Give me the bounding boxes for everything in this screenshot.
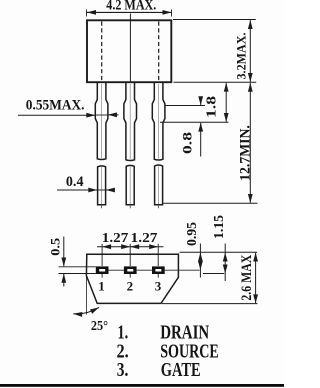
dim line 12.7 <box>249 83 251 203</box>
25 deg arc <box>73 307 99 314</box>
dim 0.8 upper tail <box>200 98 202 105</box>
ext lead end <box>164 202 258 204</box>
ext shoulder bottom <box>160 121 229 123</box>
svg-text:12.7MIN.: 12.7MIN. <box>238 125 254 181</box>
ext bottom line <box>162 303 258 305</box>
svg-text:3.2MAX.: 3.2MAX. <box>233 33 248 80</box>
dim 0.8 lower tail <box>200 123 202 157</box>
right side bottom view dims <box>162 244 258 304</box>
svg-text:0.8: 0.8 <box>180 131 195 154</box>
ext shoulder top <box>166 105 206 107</box>
lead 1 pad <box>96 266 109 274</box>
dim line 3.2 <box>249 20 251 82</box>
svg-text:25°: 25° <box>91 319 108 334</box>
arrows 1.8 <box>224 83 229 92</box>
svg-text:0.4: 0.4 <box>66 174 84 190</box>
lead 3 lower segment <box>155 165 163 205</box>
lead 1 upper segment <box>95 83 165 205</box>
center line lead 2 <box>129 14 131 82</box>
package body (front view) <box>87 20 171 82</box>
svg-text:1.8: 1.8 <box>205 96 220 118</box>
lead 3 upper segment <box>152 83 165 160</box>
dim 2.6 line <box>255 253 257 303</box>
lead 1 lower segment <box>98 166 106 205</box>
ext lead bottom (for 1.15) <box>203 273 224 275</box>
svg-text:0.95: 0.95 <box>184 222 199 246</box>
svg-text:4.2 MAX.: 4.2 MAX. <box>106 0 156 13</box>
svg-text:0.5: 0.5 <box>47 237 62 256</box>
lead row center line <box>109 269 200 271</box>
svg-text:2: 2 <box>127 278 134 293</box>
svg-text:3: 3 <box>155 278 162 293</box>
svg-text:1: 1 <box>98 278 105 293</box>
svg-text:GATE: GATE <box>161 359 201 381</box>
dimension 4.2 MAX line <box>87 11 171 13</box>
lead 2 lower segment <box>126 165 134 204</box>
lead 2 pad <box>124 266 137 274</box>
ext body bottom <box>174 81 257 83</box>
faint lead centerlines <box>101 84 103 158</box>
right side extension lines <box>160 20 258 204</box>
arrows 3.2 <box>248 20 253 29</box>
hidden lead line 3 (dashed) <box>158 22 160 82</box>
dim 0.95 line <box>199 244 201 278</box>
0.5 extension lines <box>59 267 96 274</box>
dimension 0.4 leader <box>57 189 114 191</box>
svg-text:1.27: 1.27 <box>102 231 129 246</box>
lead 2 upper segment <box>124 83 137 161</box>
arrows 0.8 <box>198 96 203 105</box>
dim 1.15 line <box>224 244 226 282</box>
package outline (bottom view) <box>86 254 178 303</box>
25 deg reference line <box>85 277 87 315</box>
dim 0.5 <box>63 237 65 287</box>
ext face line <box>180 251 258 253</box>
hidden lead line 1 (dashed) <box>101 22 103 82</box>
svg-text:1.27: 1.27 <box>131 231 158 246</box>
lead center ticks below <box>102 84 159 208</box>
1.27 extension ticks <box>102 244 158 278</box>
dimension 4.2 arrows <box>87 10 96 15</box>
lead 3 pad <box>152 266 165 274</box>
dimension 0.55MAX leader <box>18 114 119 116</box>
svg-text:1.15: 1.15 <box>211 215 226 239</box>
svg-text:3.: 3. <box>117 359 129 381</box>
svg-text:0.55MAX.: 0.55MAX. <box>26 97 85 113</box>
bottom border bar <box>0 384 284 387</box>
arrows 12.7 <box>248 83 253 92</box>
svg-text:2.6 MAX: 2.6 MAX <box>239 255 255 301</box>
dim line 1.8 <box>225 83 227 122</box>
dim line 1.27 1.27 <box>97 246 164 248</box>
ext body top <box>173 19 256 21</box>
